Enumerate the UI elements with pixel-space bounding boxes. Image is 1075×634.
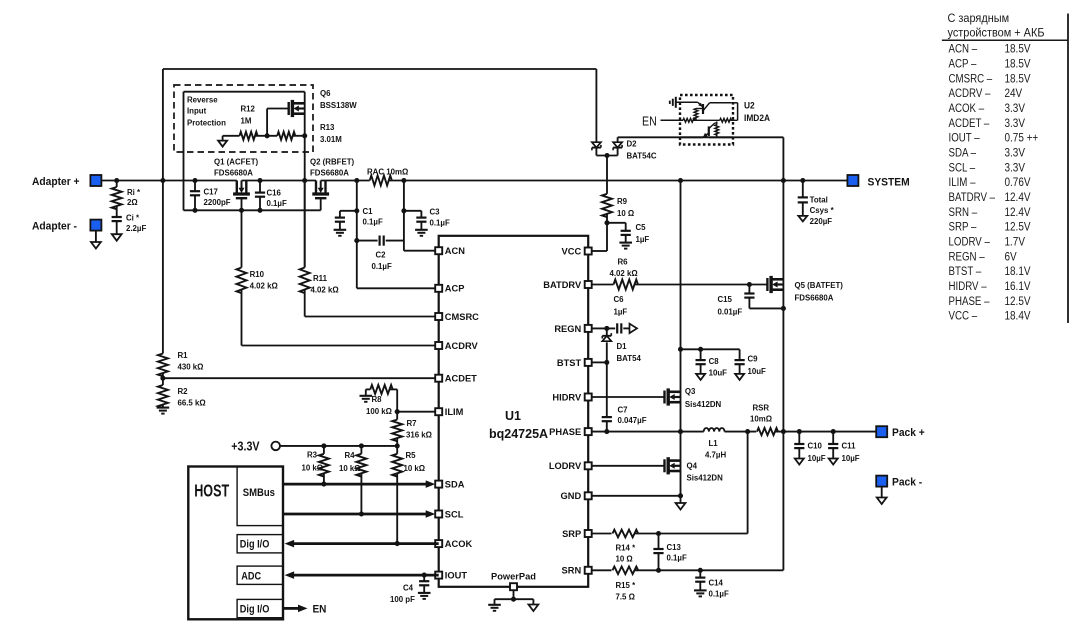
svg-text:4.02 kΩ: 4.02 kΩ — [250, 281, 279, 290]
svg-text:R11: R11 — [313, 274, 327, 283]
svg-text:Q2 (RBFET): Q2 (RBFET) — [310, 157, 354, 166]
pin BTST — [585, 359, 592, 366]
pin ILIM — [435, 408, 442, 415]
ground at R12 — [218, 141, 227, 147]
svg-text:Total: Total — [810, 195, 828, 204]
wire U2 bottom to D2 line — [680, 136, 703, 138]
ground at U2 emitter (rotated) — [675, 97, 677, 108]
resistor R12 — [223, 135, 240, 137]
wire SRN sense riser — [782, 432, 784, 571]
svg-text:ILIM –: ILIM – — [949, 176, 977, 189]
svg-text:1µF: 1µF — [614, 307, 628, 316]
node R12/R13 junction — [265, 133, 270, 138]
wire GND pin — [592, 495, 681, 497]
svg-text:SRP –: SRP – — [949, 221, 978, 234]
transistor Q1 (ACFET) — [236, 181, 238, 195]
svg-text:EN: EN — [642, 115, 657, 129]
resistor U2 EN series resistor — [683, 118, 695, 122]
wire SRP sense riser — [747, 432, 749, 534]
pin REGN — [585, 325, 592, 332]
svg-text:REGN –: REGN – — [949, 250, 986, 263]
wire system rail — [389, 180, 848, 182]
wire Q5 drain-source vertical — [782, 181, 784, 432]
svg-text:C11: C11 — [842, 441, 856, 450]
svg-text:10µF: 10µF — [842, 454, 860, 463]
svg-text:C6: C6 — [614, 295, 625, 304]
svg-text:R7: R7 — [406, 419, 417, 428]
svg-text:устройством + АКБ: устройством + АКБ — [948, 27, 1045, 40]
svg-text:BATDRV –: BATDRV – — [949, 191, 996, 204]
wire U2 top emitter rail — [676, 101, 698, 103]
svg-text:0.1µF: 0.1µF — [709, 589, 729, 598]
svg-text:R15 *: R15 * — [615, 581, 636, 590]
svg-text:SRN: SRN — [562, 566, 582, 576]
svg-text:GND: GND — [561, 491, 582, 501]
node Adapter- terminal — [90, 220, 101, 231]
box ADC — [237, 566, 283, 584]
capacitor C15 — [748, 285, 750, 294]
svg-text:bq24725A: bq24725A — [489, 427, 548, 441]
svg-text:ACN –: ACN – — [949, 43, 978, 56]
svg-text:10 kΩ: 10 kΩ — [339, 464, 361, 473]
svg-text:1M: 1M — [241, 116, 252, 125]
wire ACDRV — [242, 345, 436, 347]
svg-text:100 pF: 100 pF — [390, 595, 415, 604]
svg-text:Sis412DN: Sis412DN — [685, 400, 721, 409]
svg-text:Adapter +: Adapter + — [32, 176, 80, 189]
svg-text:Q1 (ACFET): Q1 (ACFET) — [214, 157, 258, 166]
capacitor C17 — [194, 181, 196, 192]
svg-text:C2: C2 — [375, 250, 386, 259]
svg-text:2.2µF: 2.2µF — [126, 224, 146, 233]
svg-text:10µF: 10µF — [808, 454, 826, 463]
svg-text:316 kΩ: 316 kΩ — [406, 430, 433, 439]
svg-text:L1: L1 — [709, 439, 719, 448]
svg-text:6V: 6V — [1004, 251, 1017, 264]
svg-text:VCC –: VCC – — [949, 310, 978, 323]
diode D1 BAT54 — [606, 328, 608, 335]
resistor R15 — [592, 569, 612, 571]
node Pack- terminal — [876, 476, 887, 487]
svg-text:Protection: Protection — [187, 118, 226, 127]
svg-text:0.1µF: 0.1µF — [363, 217, 383, 226]
svg-text:12.5V: 12.5V — [1004, 295, 1031, 308]
svg-text:0.047µF: 0.047µF — [618, 416, 647, 425]
svg-text:C3: C3 — [430, 207, 441, 216]
svg-text:ACOK: ACOK — [445, 539, 473, 549]
wire EN output with arrow — [283, 607, 299, 610]
svg-text:3.3V: 3.3V — [1004, 102, 1025, 115]
svg-text:Q4: Q4 — [686, 461, 697, 470]
ground at R2 — [157, 407, 170, 409]
svg-text:BTST: BTST — [557, 358, 582, 368]
resistor R13 — [277, 132, 295, 140]
pin ACP — [435, 285, 442, 292]
pin CMSRC — [435, 313, 442, 320]
wire PHASE — [592, 431, 704, 433]
svg-text:10 kΩ: 10 kΩ — [404, 464, 426, 473]
resistor R14 — [592, 533, 612, 535]
svg-text:R6: R6 — [618, 257, 629, 266]
pin SRN — [585, 567, 592, 574]
svg-text:ILIM: ILIM — [445, 407, 464, 417]
wire SDA with arrow — [283, 483, 427, 486]
wire HIDRV — [592, 396, 665, 398]
svg-text:HIDRV –: HIDRV – — [949, 280, 988, 293]
svg-text:BATDRV: BATDRV — [543, 280, 582, 290]
svg-text:ACOK –: ACOK – — [949, 102, 985, 115]
svg-text:RSR: RSR — [753, 403, 770, 412]
svg-text:IOUT: IOUT — [445, 571, 468, 581]
wire VCC feed — [606, 223, 608, 251]
resistor R9 — [606, 156, 608, 194]
transistor U2 lower NPN — [708, 126, 710, 136]
capacitor C1 — [340, 210, 357, 212]
resistor RSR — [757, 428, 778, 435]
svg-text:Pack -: Pack - — [892, 476, 923, 489]
svg-text:C4: C4 — [403, 583, 414, 592]
svg-text:Reverse: Reverse — [187, 95, 218, 104]
svg-text:IOUT –: IOUT – — [949, 132, 981, 145]
svg-text:C16: C16 — [267, 188, 282, 197]
svg-text:C1: C1 — [363, 207, 374, 216]
wire ACP branch — [356, 181, 358, 289]
wire table right border — [1067, 14, 1069, 324]
svg-text:LODRV –: LODRV – — [949, 236, 991, 249]
svg-text:R12: R12 — [241, 104, 256, 113]
svg-text:0.1µF: 0.1µF — [267, 199, 287, 208]
transistor pair U2 IMD2A — [680, 95, 733, 145]
wire Q6 gate — [267, 108, 289, 110]
transistor Q2 (RBFET) — [315, 181, 317, 195]
resistor R2 — [162, 373, 164, 385]
svg-text:4.02 kΩ: 4.02 kΩ — [310, 285, 339, 294]
svg-text:VCC: VCC — [562, 246, 582, 256]
wire D2 right branch to U2 — [617, 137, 619, 142]
svg-text:ADC: ADC — [241, 571, 261, 583]
pin PHASE — [585, 428, 592, 435]
wire ILIM — [397, 411, 435, 413]
svg-text:Q3: Q3 — [685, 387, 696, 396]
svg-text:CMSRC –: CMSRC – — [949, 72, 994, 85]
svg-text:R4: R4 — [344, 451, 355, 460]
svg-text:16.1V: 16.1V — [1004, 280, 1031, 293]
transistor Q5 (BATFET) — [766, 278, 768, 291]
svg-text:C15: C15 — [717, 295, 732, 304]
capacitor C16 — [259, 181, 261, 193]
svg-text:0.01µF: 0.01µF — [717, 307, 742, 316]
wire CMSRC — [305, 316, 436, 318]
svg-text:U1: U1 — [505, 409, 521, 423]
transistor Q6 — [288, 102, 290, 115]
svg-text:C10: C10 — [808, 441, 823, 450]
wire U2 right bracket — [737, 103, 739, 121]
svg-text:1.7V: 1.7V — [1004, 236, 1025, 249]
svg-text:10uF: 10uF — [747, 367, 765, 376]
resistor R11 — [304, 181, 306, 268]
svg-text:10 Ω: 10 Ω — [615, 554, 633, 563]
svg-text:C14: C14 — [709, 578, 724, 587]
pin BATDRV — [585, 281, 592, 288]
svg-text:18.4V: 18.4V — [1004, 310, 1031, 323]
svg-text:R10: R10 — [250, 270, 265, 279]
svg-text:0.76V: 0.76V — [1004, 176, 1031, 189]
svg-text:0.1µF: 0.1µF — [667, 553, 687, 562]
svg-text:C7: C7 — [618, 405, 629, 414]
svg-text:Adapter -: Adapter - — [32, 220, 77, 233]
svg-text:BAT54C: BAT54C — [626, 151, 656, 160]
pin ACN — [435, 247, 442, 254]
capacitor C2 — [357, 240, 378, 242]
svg-text:10 Ω: 10 Ω — [617, 209, 635, 218]
svg-text:PHASE –: PHASE – — [949, 295, 991, 308]
svg-text:CMSRC: CMSRC — [445, 312, 479, 322]
wire ACOK with arrow — [294, 542, 439, 545]
node ACDET divider junction — [160, 376, 165, 381]
svg-text:SMBus: SMBus — [243, 487, 275, 499]
resistor R10 — [241, 210, 243, 267]
node Adapter+ terminal — [90, 175, 101, 186]
svg-text:4.02 kΩ: 4.02 kΩ — [610, 269, 639, 278]
transistor Q4 — [663, 459, 665, 472]
box Dig I/O lower — [237, 599, 283, 617]
svg-text:R8: R8 — [371, 395, 382, 404]
svg-text:BTST –: BTST – — [949, 265, 983, 278]
svg-text:SCL: SCL — [445, 509, 464, 519]
svg-text:EN: EN — [312, 603, 326, 616]
svg-text:Dig I/O: Dig I/O — [240, 604, 270, 616]
svg-text:R13: R13 — [320, 123, 335, 132]
resistor R4 — [360, 446, 362, 454]
svg-text:PowerPad: PowerPad — [491, 572, 536, 582]
svg-text:3.3V: 3.3V — [1004, 162, 1025, 175]
wire Pack+ line — [776, 431, 877, 433]
svg-text:C8: C8 — [709, 357, 720, 366]
svg-text:18.5V: 18.5V — [1004, 72, 1031, 85]
capacitor C10 — [798, 432, 800, 444]
svg-text:C9: C9 — [747, 354, 758, 363]
svg-text:SYSTEM: SYSTEM — [868, 176, 910, 189]
resistor U2 lower base resistor — [715, 122, 717, 124]
capacitor C11 — [832, 432, 834, 444]
svg-text:U2: U2 — [744, 100, 755, 110]
svg-text:BAT54: BAT54 — [617, 354, 642, 363]
svg-text:220µF: 220µF — [810, 217, 833, 226]
resistor U2 right resistor — [703, 119, 720, 121]
svg-text:ACP –: ACP – — [949, 58, 978, 71]
svg-text:10uF: 10uF — [709, 368, 727, 377]
svg-text:3.01M: 3.01M — [320, 135, 342, 144]
wire gate bus — [184, 209, 321, 211]
capacitor C5 — [607, 222, 626, 224]
pin IOUT — [435, 572, 442, 579]
box HOST — [188, 467, 283, 620]
wire rail Q2 to RAC — [321, 180, 370, 182]
svg-text:R1: R1 — [177, 351, 188, 360]
wire SCL with arrow — [283, 513, 427, 516]
wire RIP loop — [183, 92, 185, 211]
svg-text:SDA –: SDA – — [949, 147, 977, 160]
svg-text:Csys *: Csys * — [810, 206, 835, 215]
capacitor C13 — [658, 534, 660, 550]
wire L1 to RSR — [725, 431, 757, 433]
svg-text:18.5V: 18.5V — [1004, 58, 1031, 71]
svg-text:FDS6680A: FDS6680A — [795, 293, 834, 302]
svg-text:SRP: SRP — [562, 529, 581, 539]
svg-text:FDS6680A: FDS6680A — [310, 168, 349, 177]
pin VCC — [585, 248, 592, 255]
svg-text:4.7µH: 4.7µH — [705, 450, 726, 459]
wire +3.3V rail — [280, 445, 397, 447]
svg-text:SRN –: SRN – — [949, 206, 978, 219]
resistor R8 — [396, 389, 398, 411]
pin HIDRV — [585, 394, 592, 401]
capacitor C9 — [739, 349, 741, 360]
svg-text:LODRV: LODRV — [549, 461, 582, 471]
wire adapter rail — [101, 180, 236, 182]
ground at Adapter- — [95, 231, 97, 242]
svg-text:+3.3V: +3.3V — [231, 440, 259, 454]
svg-text:FDS6680A: FDS6680A — [214, 168, 253, 177]
svg-text:12.4V: 12.4V — [1004, 206, 1031, 219]
svg-text:100 kΩ: 100 kΩ — [366, 407, 393, 416]
wire LODRV — [592, 465, 665, 467]
node C15 junction — [747, 282, 752, 287]
svg-text:Sis412DN: Sis412DN — [686, 473, 722, 482]
svg-text:66.5 kΩ: 66.5 kΩ — [177, 398, 206, 407]
capacitor C6 with arrow — [592, 327, 616, 329]
pin SCL — [435, 511, 442, 518]
capacitor C7 — [606, 362, 608, 417]
svg-text:C5: C5 — [636, 223, 647, 232]
svg-text:PHASE: PHASE — [549, 427, 581, 437]
ground at PowerPad left — [494, 599, 496, 605]
transistor Q3 — [663, 391, 665, 404]
svg-text:Dig I/O: Dig I/O — [240, 539, 270, 551]
pin LODRV — [585, 462, 592, 469]
ground at GND pin — [680, 496, 682, 503]
svg-text:10 kΩ: 10 kΩ — [302, 463, 324, 472]
svg-text:0.1µF: 0.1µF — [371, 262, 391, 271]
wire Q3 drain vertical — [680, 181, 682, 496]
resistor U2 upper base resistor — [696, 108, 703, 110]
capacitor C4 — [422, 573, 427, 578]
wire IOUT with arrow — [294, 574, 439, 577]
svg-text:D1: D1 — [617, 342, 628, 351]
svg-text:12.5V: 12.5V — [1004, 221, 1031, 234]
wire common-source segment — [242, 180, 317, 182]
svg-text:REGN: REGN — [554, 324, 581, 334]
svg-text:Q5 (BATFET): Q5 (BATFET) — [795, 281, 844, 290]
svg-text:18.5V: 18.5V — [1004, 43, 1031, 56]
ground at PowerPad right — [532, 599, 534, 604]
svg-text:10mΩ: 10mΩ — [750, 414, 773, 423]
resistor Ri — [116, 181, 118, 188]
box SMBus — [237, 467, 283, 526]
svg-text:12.4V: 12.4V — [1004, 191, 1031, 204]
capacitor Csys — [802, 181, 804, 198]
svg-text:HOST: HOST — [194, 481, 230, 501]
svg-text:1µF: 1µF — [636, 235, 650, 244]
svg-text:ACDET –: ACDET – — [949, 117, 991, 130]
svg-text:RAC 10mΩ: RAC 10mΩ — [367, 167, 409, 176]
wire top loop from left column — [162, 69, 164, 354]
wire C8 C9 rail — [681, 348, 740, 350]
svg-text:0.1µF: 0.1µF — [430, 218, 450, 227]
resistor R6 — [592, 284, 614, 286]
pin ACDRV — [435, 342, 442, 349]
svg-text:R2: R2 — [177, 387, 188, 396]
capacitor C3 — [404, 210, 422, 212]
capacitor Ci — [116, 206, 118, 217]
svg-text:HIDRV: HIDRV — [552, 392, 582, 402]
pin GND — [585, 492, 592, 499]
svg-text:2Ω: 2Ω — [127, 198, 138, 207]
wire Q2 gate stem — [320, 199, 322, 210]
svg-text:Ci *: Ci * — [126, 213, 140, 222]
op-amp U1 bq24725A IC body — [439, 236, 589, 587]
wire ACN branch — [403, 181, 405, 251]
wire ACDET — [163, 377, 435, 379]
svg-text:C13: C13 — [667, 543, 682, 552]
svg-text:D2: D2 — [626, 139, 637, 148]
capacitor C8 — [700, 349, 702, 360]
svg-text:Pack +: Pack + — [892, 427, 925, 440]
ground at R8 — [360, 395, 373, 397]
svg-text:0.75 ++: 0.75 ++ — [1004, 132, 1038, 145]
pin ACDET — [435, 375, 442, 382]
wire top to D2 — [595, 69, 597, 142]
pin SRP — [585, 530, 592, 537]
ground at Ci — [112, 234, 122, 241]
node SYSTEM terminal — [847, 175, 858, 186]
resistor R1 — [158, 354, 168, 377]
inductor L1 — [704, 428, 725, 432]
svg-text:IMD2A: IMD2A — [744, 113, 770, 123]
svg-text:R3: R3 — [307, 450, 318, 459]
svg-text:С зарядным: С зарядным — [948, 13, 1010, 26]
svg-text:Q6: Q6 — [320, 89, 331, 98]
svg-text:R9: R9 — [617, 197, 628, 206]
ground at Pack- — [881, 487, 883, 498]
svg-text:3.3V: 3.3V — [1004, 117, 1025, 130]
svg-text:3.3V: 3.3V — [1004, 147, 1025, 160]
svg-text:C17: C17 — [203, 187, 218, 196]
pin SDA — [435, 481, 442, 488]
svg-text:ACDRV: ACDRV — [445, 341, 479, 351]
svg-text:SDA: SDA — [445, 480, 465, 490]
svg-text:Input: Input — [187, 106, 207, 115]
capacitor C14 — [699, 570, 701, 577]
svg-text:2200pF: 2200pF — [203, 198, 230, 207]
box reverse input protection — [174, 85, 313, 152]
svg-text:ACDET: ACDET — [445, 374, 477, 384]
pin ACOK — [435, 540, 442, 547]
node junction dots on rail — [114, 178, 119, 183]
resistor R5 — [396, 446, 398, 454]
svg-text:ACN: ACN — [445, 246, 465, 256]
svg-text:R5: R5 — [405, 451, 416, 460]
svg-text:Ri *: Ri * — [127, 188, 141, 197]
svg-text:7.5 Ω: 7.5 Ω — [615, 592, 635, 601]
resistor R7 — [396, 412, 398, 420]
box Dig I/O upper — [237, 535, 283, 553]
svg-text:SCL –: SCL – — [949, 161, 976, 174]
svg-text:BSS138W: BSS138W — [320, 101, 357, 110]
node Pack+ terminal — [876, 426, 887, 437]
svg-text:R14 *: R14 * — [615, 543, 636, 552]
resistor R3 — [323, 446, 325, 454]
